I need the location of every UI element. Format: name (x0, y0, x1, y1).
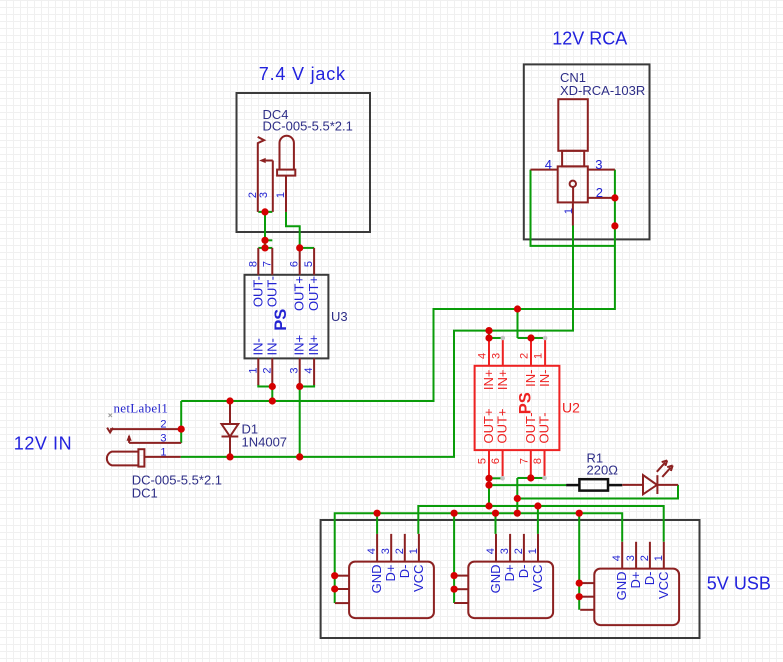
U3 pin 4 (313, 358, 315, 385)
junction U2 OUT- on GND rail (514, 510, 521, 517)
svg-text:OUT+: OUT+ (292, 276, 307, 311)
DC1 pin 3 line with arrow (129, 436, 181, 443)
DC4 pin 3 line with arrow (262, 161, 273, 212)
svg-text:3: 3 (490, 353, 502, 359)
svg-text:GND: GND (614, 572, 629, 601)
svg-text:4: 4 (477, 353, 489, 359)
junction U2 pin 4 (485, 334, 492, 341)
LED emission arrow 2 (662, 466, 672, 477)
wire 5V VCC rail (418, 506, 663, 542)
junction U2 pin 5 (485, 475, 492, 482)
USB2 shell pin c (454, 602, 468, 604)
junction LED return (514, 495, 521, 502)
junction U3 pin 8/7 (261, 244, 268, 251)
DC1 pin 1 lead (144, 456, 180, 458)
wire GND drop USB1 pin4 (376, 513, 378, 534)
svg-text:2: 2 (160, 419, 166, 431)
D1 cathode lead (229, 437, 231, 457)
svg-text:VCC: VCC (530, 565, 545, 592)
svg-text:3: 3 (258, 192, 270, 198)
wire U3 IN- to GND rail (271, 387, 273, 402)
wire GND rail (335, 513, 623, 603)
netLabel1 anchor marker (109, 414, 113, 418)
svg-text:OUT-: OUT- (537, 412, 552, 443)
svg-text:OUT+: OUT+ (306, 276, 321, 311)
svg-text:OUT-: OUT- (264, 276, 279, 307)
junction U2 OUT+ on VCC rail (485, 502, 492, 509)
svg-text:IN+: IN+ (306, 335, 321, 356)
svg-text:4: 4 (366, 548, 378, 554)
svg-text:7: 7 (261, 261, 273, 267)
svg-text:1: 1 (247, 367, 259, 373)
wire 12V net from DC1 pin1 to U2/RCA (181, 226, 573, 457)
junction U3 IN+ on 12V rail (296, 453, 303, 460)
wire U2 pins 2-1 jumper (518, 337, 546, 339)
USB3 shell pin c (580, 609, 594, 611)
USB2 shell pin b (454, 588, 468, 590)
svg-text:220Ω: 220Ω (587, 463, 619, 478)
junction node above U3 (261, 237, 268, 244)
svg-text:1: 1 (563, 208, 575, 214)
svg-text:6: 6 (490, 458, 502, 464)
U3 pin 3 (299, 358, 301, 385)
wire U3 pins 6-5 jumper (300, 247, 314, 249)
wire VCC drop USB2 pin1 (537, 506, 539, 534)
junction USB1 shell a (331, 572, 338, 579)
svg-text:4: 4 (611, 555, 623, 561)
U3 body box (245, 275, 329, 359)
wire U3 pins 1-2 jumper (258, 385, 272, 387)
DC4 pin 1 lead (285, 176, 287, 212)
svg-text:PS: PS (272, 309, 290, 331)
USB1 shell pin a (335, 575, 349, 577)
USB1 pin 2 (404, 534, 406, 562)
U2 pin 3 (502, 338, 504, 366)
D1 cathode bar (222, 436, 239, 438)
USB3 pin 1 (663, 542, 665, 569)
junction U3 pin 3/4 (296, 383, 303, 390)
wire U2 OUT+ to R1 (489, 484, 566, 486)
U3 pin 8 (257, 248, 259, 275)
wire U3 IN+ to 12V rail (299, 387, 301, 457)
wire GND net horizontal and riser to RCA (181, 170, 615, 401)
U2 unconnected pin end circle pin6 (500, 476, 505, 481)
U2 pin 1 (544, 338, 546, 366)
svg-text:D+: D+ (628, 572, 643, 589)
U3 pin 7 (271, 248, 273, 275)
module U2 PS converter (475, 336, 581, 481)
diode D1 1N4007 (222, 401, 288, 457)
svg-text:2: 2 (639, 555, 651, 561)
svg-text:D-: D- (516, 565, 531, 579)
U2 body box (475, 366, 560, 450)
svg-text:5: 5 (303, 261, 315, 267)
DC1 flange (138, 449, 144, 466)
svg-text:U3: U3 (331, 309, 348, 324)
USB1 pin 3 (390, 534, 392, 562)
CN1 pin 1 inner lead (572, 186, 574, 225)
junction USB2 shell b (451, 586, 458, 593)
USB2 pin 1 (537, 534, 539, 562)
connector DC4 barrel jack (247, 107, 353, 212)
USB2 shell pin a (454, 575, 468, 577)
junction 12V to U2 IN+ (485, 327, 492, 334)
svg-text:IN-: IN- (523, 370, 538, 387)
wire DC4 pins2,3 junction jumper (258, 211, 272, 213)
USB3 shell pin a (580, 582, 594, 584)
wire U2 pins 4-3 jumper (489, 337, 503, 339)
USB1 body (349, 562, 434, 619)
svg-text:1N4007: 1N4007 (242, 435, 288, 450)
svg-text:2: 2 (519, 353, 531, 359)
svg-text:7: 7 (518, 458, 530, 464)
junction U3 IN- on GND rail (269, 397, 276, 404)
frame box 12V RCA section (524, 64, 650, 239)
svg-text:3: 3 (625, 555, 637, 561)
svg-text:1: 1 (527, 548, 539, 554)
DC4 flange (277, 170, 295, 176)
svg-text:DC-005-5.5*2.1: DC-005-5.5*2.1 (263, 118, 353, 133)
junction U2 pin 7 (527, 474, 534, 481)
svg-text:1: 1 (160, 446, 166, 458)
svg-text:3: 3 (160, 432, 166, 444)
svg-text:5V USB: 5V USB (707, 574, 771, 594)
USB2 pin 4 (495, 534, 497, 562)
LED anode lead (622, 484, 643, 486)
U2 pin 4 (488, 338, 490, 366)
U2 pin 2 (530, 338, 532, 366)
wire U2 IN+ riser (488, 331, 490, 338)
svg-text:4: 4 (485, 548, 497, 554)
U2 unconnected pin end circle pin3 (501, 336, 506, 341)
U2 pin 8 (544, 450, 546, 478)
CN1 center contact circle (570, 181, 576, 187)
svg-text:1: 1 (653, 555, 665, 561)
USB2 pin 2 (523, 534, 525, 562)
wire U2 OUT- drop to GND rail (516, 478, 518, 513)
wire stub at node 240 (265, 239, 272, 241)
svg-text:2: 2 (261, 367, 273, 373)
wire U2 OUT+ drop to VCC rail (488, 478, 490, 506)
CN1 barrel rect (558, 99, 588, 151)
svg-text:D+: D+ (502, 565, 517, 582)
CN1 neck rect (562, 151, 584, 167)
DC4 pin 2 switch line with chevron (258, 137, 264, 212)
svg-text:D-: D- (397, 565, 412, 579)
svg-text:12V IN: 12V IN (14, 434, 72, 454)
connector USB1 (335, 534, 434, 618)
U3 pin 2 (271, 358, 273, 385)
U2 unconnected pin end circle pin1 (543, 336, 548, 341)
svg-text:IN-: IN- (264, 338, 279, 355)
wire LED cathode return (517, 485, 678, 499)
wire U3 pins 8-7 jumper (258, 247, 272, 249)
CN1 pin 3 lead (588, 169, 615, 171)
svg-text:PS: PS (516, 392, 534, 414)
svg-text:1: 1 (275, 192, 287, 198)
wire RCA pin4 shell jumper (531, 170, 615, 246)
svg-text:XD-RCA-103R: XD-RCA-103R (560, 83, 645, 98)
svg-text:IN+: IN+ (481, 370, 496, 391)
DC4 pin 1 center barrel (280, 136, 294, 170)
USB1 shell pin c (335, 602, 349, 604)
USB1 pin 4 (376, 534, 378, 562)
wire DC1 pins 2,3 to GND rail riser (180, 401, 182, 443)
svg-text:VCC: VCC (656, 572, 671, 599)
svg-text:2: 2 (394, 548, 406, 554)
svg-text:IN-: IN- (250, 338, 265, 355)
svg-text:2: 2 (596, 185, 603, 200)
junction USB2 VCC on rail (534, 502, 541, 509)
CN1 pin 4 lead (531, 169, 558, 171)
junction USB3 shell b (576, 593, 583, 600)
USB3 pin 3 (635, 542, 637, 569)
USB3 pin 4 (621, 542, 623, 569)
svg-text:IN+: IN+ (495, 370, 510, 391)
svg-text:3: 3 (499, 548, 511, 554)
junction USB1 shell b (331, 585, 338, 592)
U3 pin 5 (313, 248, 315, 275)
svg-text:DC1: DC1 (132, 486, 158, 501)
wire GND drop USB3 shell rail (578, 513, 580, 610)
svg-text:VCC: VCC (411, 565, 426, 592)
junction U3 pin 1/2 (269, 383, 276, 390)
svg-text:8: 8 (532, 458, 544, 464)
U2 pin 6 (502, 450, 504, 478)
svg-text:8: 8 (247, 261, 259, 267)
junction USB1 pin4 on GND rail (374, 510, 381, 517)
USB3 pin 2 (649, 542, 651, 569)
frame box 5V USB section (321, 520, 700, 638)
svg-text:3: 3 (289, 367, 301, 373)
junction USB3 shell drop (576, 510, 583, 517)
svg-text:1: 1 (533, 353, 545, 359)
DC1 pin 2 switch line with chevron (107, 428, 181, 433)
svg-text:4: 4 (303, 367, 315, 373)
svg-text:OUT-: OUT- (250, 276, 265, 307)
LED triangle (643, 475, 657, 494)
U3 pin 6 (299, 248, 301, 275)
wire DC4 to U3 OUT- vertical (264, 212, 266, 248)
svg-text:U2: U2 (562, 400, 580, 416)
D1 triangle (222, 424, 239, 437)
junction U3 pin 6/5 (296, 244, 303, 251)
USB2 pin 3 (509, 534, 511, 562)
wire DC4 pin1 to U3 OUT+ (286, 212, 300, 248)
wire U2 pins 7-8 jumper (517, 477, 544, 479)
frame box 7.4V jack section (237, 93, 371, 232)
svg-text:IN-: IN- (537, 370, 552, 387)
CN1 pin 2 lead (588, 197, 615, 199)
junction U2 pin 2 (527, 334, 534, 341)
svg-text:netLabel1: netLabel1 (114, 401, 169, 416)
LED emission arrow 1 (657, 460, 667, 471)
svg-text:4: 4 (545, 157, 552, 172)
U2 unconnected pin end circle pin8 (542, 476, 547, 481)
junction CN1 pin 2 (611, 194, 618, 201)
wire U2 pins 5-6 jumper (489, 477, 503, 479)
connector USB2 (454, 534, 553, 618)
LED cathode lead (657, 484, 678, 486)
svg-text:GND: GND (488, 565, 503, 594)
wire GND drop USB2 pin4 (495, 513, 497, 534)
wire GND drop to U2 IN- (517, 309, 519, 338)
junction USB2 shell a (451, 572, 458, 579)
svg-text:2: 2 (513, 548, 525, 554)
USB1 pin 1 (418, 534, 420, 562)
svg-text:OUT+: OUT+ (495, 408, 510, 443)
junction USB2 pin4 on GND rail (492, 510, 499, 517)
connector CN1 RCA socket (531, 70, 646, 226)
LED cathode bar (656, 475, 658, 494)
USB3 shell pin b (580, 596, 594, 598)
junction D1 cathode (226, 453, 233, 460)
connector DC1 barrel jack (107, 419, 222, 501)
svg-text:5: 5 (477, 458, 489, 464)
wire GND drop USB2 shell rail (453, 513, 455, 603)
connector USB3 (580, 542, 679, 625)
wire U3 pins 3-4 jumper (300, 385, 314, 387)
junction DC4 pins (261, 208, 268, 215)
junction D1 anode (226, 397, 233, 404)
USB3 body (594, 569, 679, 626)
junction USB3 shell a (576, 580, 583, 587)
junction U2 OUT+ to R1 (485, 482, 492, 489)
R1 body (579, 479, 608, 490)
resistor R1 220 ohm (566, 451, 622, 491)
svg-text:3: 3 (380, 548, 392, 554)
U3 pin 1 (257, 358, 259, 385)
svg-text:GND: GND (369, 565, 384, 594)
svg-text:3: 3 (595, 157, 602, 172)
svg-text:7.4 V jack: 7.4 V jack (259, 64, 346, 84)
module U3 PS converter (245, 248, 348, 385)
USB2 body (468, 562, 553, 619)
junction GND to U2 IN- (514, 305, 521, 312)
svg-text:6: 6 (289, 261, 301, 267)
U2 pin 7 (530, 450, 532, 478)
junction USB2 shell drop (451, 510, 458, 517)
svg-text:IN+: IN+ (292, 335, 307, 356)
CN1 body rect (558, 166, 588, 202)
svg-text:1: 1 (408, 548, 420, 554)
U2 pin 5 (488, 450, 490, 478)
DC1 pin 1 center barrel (107, 452, 139, 466)
junction DC1 pin 2 (178, 426, 185, 433)
USB1 shell pin b (335, 588, 349, 590)
D1 anode lead (229, 401, 231, 424)
junction node below CN1 pin2 (611, 222, 618, 229)
LED indicator (622, 460, 678, 494)
svg-text:D-: D- (642, 572, 657, 586)
R1 left lead (566, 484, 579, 487)
R1 right lead (608, 484, 622, 487)
svg-text:12V RCA: 12V RCA (552, 29, 627, 49)
